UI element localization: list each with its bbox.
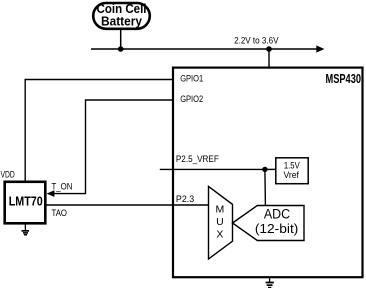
- svg-text:M: M: [216, 204, 225, 216]
- svg-text:GPIO1: GPIO1: [180, 74, 203, 85]
- wire GPIO2 down to T_ON: [54, 99, 86, 193]
- wire TAO to P2.3 MUX input: [45, 204, 208, 206]
- svg-text:ADC: ADC: [264, 207, 291, 222]
- arrowhead T_ON into LMT70: [47, 190, 55, 197]
- wire junction to 1.5V Vref block: [265, 168, 276, 170]
- node supply junction: [266, 46, 272, 52]
- node battery junction: [118, 46, 124, 52]
- pin GPIO1: [25, 79, 173, 81]
- wire junction down to ADC: [264, 169, 267, 205]
- arrowhead power rail: [316, 45, 324, 52]
- wire power rail 2.2V-3.6V: [91, 48, 318, 50]
- svg-text:(12-bit): (12-bit): [255, 221, 299, 236]
- node VREF junction: [262, 167, 267, 172]
- wire GPIO1 to LMT70 VDD: [24, 79, 26, 182]
- svg-text:LMT70: LMT70: [9, 195, 43, 209]
- battery BT1 Coin Cell: [93, 1, 150, 29]
- svg-text:2.2V to 3.6V: 2.2V to 3.6V: [234, 35, 279, 46]
- svg-text:P2.5_VREF: P2.5_VREF: [176, 154, 219, 165]
- pin P2.5_VREF stub and wire to junction: [160, 168, 265, 170]
- adc ADC 12-bit: [233, 206, 305, 241]
- wire supply drop to MSP430: [268, 49, 270, 68]
- block 1.5V Vref: [276, 158, 308, 184]
- IC U2 MSP430 box: [173, 68, 363, 278]
- svg-text:T_ON: T_ON: [52, 182, 73, 193]
- svg-text:P2.3: P2.3: [176, 194, 194, 205]
- svg-text:TAO: TAO: [52, 208, 68, 219]
- svg-text:GPIO2: GPIO2: [180, 94, 203, 105]
- wire battery stem: [120, 30, 122, 50]
- svg-text:VDD: VDD: [1, 170, 15, 181]
- pin GPIO2: [86, 99, 174, 101]
- svg-text:Battery: Battery: [101, 13, 143, 28]
- svg-text:X: X: [216, 229, 223, 241]
- ground LMT70: [22, 224, 30, 236]
- mux MUX: [209, 186, 233, 259]
- sensor U1 LMT70 box: [5, 182, 46, 224]
- ground MSP430: [266, 278, 274, 288]
- svg-text:MSP430: MSP430: [326, 72, 362, 86]
- svg-text:U: U: [216, 216, 224, 228]
- svg-text:Vref: Vref: [283, 170, 299, 181]
